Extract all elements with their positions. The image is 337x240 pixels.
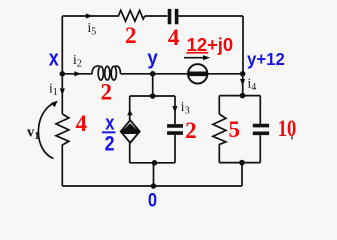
svg-text:2: 2 bbox=[125, 23, 137, 48]
resistor R (5) bbox=[213, 114, 226, 163]
label x/2 bbox=[102, 112, 116, 155]
middle box top edge bbox=[130, 95, 175, 97]
wire middle rail to current source bbox=[121, 73, 189, 75]
right box bottom junction dot bbox=[239, 160, 245, 166]
middle box right branch lower wire bbox=[174, 135, 176, 163]
wire middle rail right of source bbox=[207, 73, 243, 75]
capacitor C (4) top bbox=[170, 9, 177, 24]
wire right vertical bbox=[242, 16, 244, 74]
right box right branch lower wire bbox=[259, 135, 261, 162]
arrow i4 bbox=[240, 79, 245, 86]
svg-text:4: 4 bbox=[168, 25, 180, 50]
middle box left branch lower wire bbox=[129, 143, 131, 163]
inductor L (2) bbox=[92, 66, 121, 80]
svg-text:x: x bbox=[105, 112, 114, 134]
middle box bottom edge bbox=[130, 162, 175, 164]
wire top rail middle segment bbox=[145, 15, 168, 17]
capacitor C (2) middle bbox=[167, 126, 183, 133]
bottom rail bbox=[62, 185, 242, 187]
right box bottom edge bbox=[219, 162, 260, 164]
right box feed from y+12 bbox=[242, 74, 244, 96]
svg-text:y+12: y+12 bbox=[247, 49, 285, 69]
svg-text:5: 5 bbox=[228, 117, 240, 142]
middle box bottom junction dot bbox=[152, 160, 158, 166]
capacitor C (10) right bbox=[253, 126, 269, 134]
node y dot bbox=[150, 71, 156, 77]
node y+12 dot bbox=[240, 71, 246, 77]
arrow i3 bbox=[172, 106, 177, 113]
dependent source diamond (x/2) bbox=[121, 120, 140, 143]
right box left branch wire bbox=[218, 96, 220, 114]
stray mark after 10 bbox=[291, 137, 292, 140]
wire left vertical below node x bbox=[61, 74, 63, 114]
arrow for 12+j0 bbox=[184, 57, 205, 59]
red underline under 12 bbox=[186, 52, 208, 54]
wire middle rail bbox=[62, 73, 92, 75]
arrow i2 bbox=[74, 71, 81, 76]
arrow i5 bbox=[86, 13, 93, 18]
svg-text:10: 10 bbox=[278, 116, 297, 141]
dependent source arrowhead above diamond bbox=[127, 109, 132, 115]
svg-text:x: x bbox=[49, 45, 59, 70]
middle box feed to ground rail bbox=[153, 163, 155, 186]
svg-text:0: 0 bbox=[148, 189, 157, 211]
middle box feed from y bbox=[152, 74, 154, 96]
middle box left branch wire bbox=[129, 96, 131, 120]
node 0 dot bbox=[151, 183, 157, 189]
resistor R (2) top bbox=[116, 10, 145, 21]
wire top rail left segment bbox=[62, 15, 116, 17]
node x dot bbox=[60, 71, 66, 77]
wire left vertical top bbox=[61, 16, 63, 74]
right box top edge bbox=[219, 95, 260, 97]
middle box top junction dot bbox=[150, 93, 156, 99]
resistor R (4) left bbox=[56, 114, 69, 186]
wire top rail right segment bbox=[178, 15, 243, 17]
v1 arc bbox=[38, 102, 55, 158]
svg-text:2: 2 bbox=[105, 133, 115, 156]
arrow i1 bbox=[60, 88, 65, 95]
middle box right branch wire bbox=[174, 96, 176, 124]
svg-text:2: 2 bbox=[185, 118, 197, 143]
right box right branch wire bbox=[259, 96, 261, 124]
svg-text:2: 2 bbox=[101, 79, 113, 104]
current source I (12+j0) bbox=[188, 64, 207, 83]
svg-text:12+j0: 12+j0 bbox=[187, 34, 234, 55]
right box top junction dot bbox=[240, 93, 246, 99]
svg-text:4: 4 bbox=[75, 111, 87, 136]
svg-text:y: y bbox=[147, 47, 158, 69]
right box feed to ground rail bbox=[241, 163, 243, 186]
